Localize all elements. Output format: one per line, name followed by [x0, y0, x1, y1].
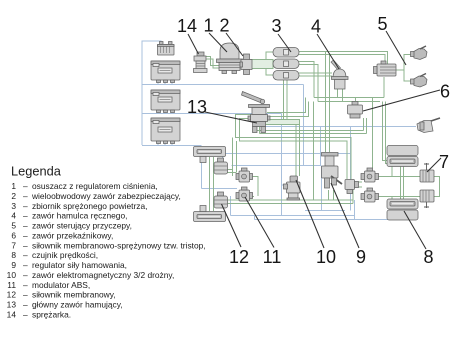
- svg-text:zawór hamulca ręcznego,: zawór hamulca ręcznego,: [32, 211, 127, 221]
- svg-text:zbiornik sprężonego powietrza,: zbiornik sprężonego powietrza,: [32, 201, 147, 211]
- svg-text:14: 14: [7, 309, 17, 319]
- svg-text:10: 10: [316, 247, 336, 267]
- svg-text:1: 1: [203, 16, 213, 36]
- svg-text:6: 6: [11, 230, 16, 240]
- svg-text:10: 10: [7, 270, 17, 280]
- svg-text:wieloobwodowy zawór zabezpiecz: wieloobwodowy zawór zabezpieczający,: [31, 191, 181, 201]
- svg-text:4: 4: [311, 17, 321, 37]
- svg-text:zawór przekaźnikowy,: zawór przekaźnikowy,: [32, 230, 113, 240]
- svg-text:siłownik membranowo-sprężynowy: siłownik membranowo-sprężynowy tzw. tris…: [32, 240, 206, 250]
- svg-text:–: –: [23, 280, 28, 290]
- svg-text:osuszacz z regulatorem ciśnien: osuszacz z regulatorem ciśnienia,: [32, 181, 158, 191]
- svg-text:11: 11: [263, 247, 282, 267]
- svg-text:5: 5: [377, 14, 387, 34]
- svg-text:Legenda: Legenda: [11, 164, 62, 179]
- svg-text:3: 3: [271, 16, 281, 36]
- svg-text:7: 7: [439, 152, 449, 172]
- svg-text:12: 12: [7, 290, 17, 300]
- svg-text:czujnik prędkości,: czujnik prędkości,: [32, 250, 98, 260]
- svg-text:–: –: [23, 290, 28, 300]
- svg-text:–: –: [23, 300, 28, 310]
- svg-text:–: –: [23, 250, 28, 260]
- svg-text:sprężarka.: sprężarka.: [32, 309, 71, 319]
- svg-text:11: 11: [7, 280, 16, 290]
- svg-text:8: 8: [423, 247, 433, 267]
- svg-text:–: –: [23, 221, 28, 231]
- svg-text:–: –: [23, 211, 28, 221]
- svg-text:8: 8: [11, 250, 16, 260]
- svg-text:5: 5: [11, 221, 16, 231]
- svg-text:zawór elektromagnetyczny 3/2 d: zawór elektromagnetyczny 3/2 drożny,: [32, 270, 174, 280]
- svg-text:9: 9: [356, 247, 366, 267]
- svg-text:7: 7: [11, 240, 16, 250]
- svg-text:–: –: [23, 230, 28, 240]
- svg-text:1: 1: [11, 181, 16, 191]
- svg-text:modulator ABS,: modulator ABS,: [32, 280, 90, 290]
- svg-text:2: 2: [219, 16, 229, 36]
- svg-text:zawór sterujący przyczepy,: zawór sterujący przyczepy,: [32, 221, 132, 231]
- svg-text:–: –: [23, 191, 28, 201]
- svg-text:–: –: [23, 260, 28, 270]
- svg-text:–: –: [23, 240, 28, 250]
- svg-text:6: 6: [440, 82, 450, 102]
- svg-text:–: –: [23, 270, 28, 280]
- svg-text:3: 3: [11, 201, 16, 211]
- svg-text:siłownik membranowy,: siłownik membranowy,: [32, 290, 116, 300]
- svg-text:14: 14: [177, 16, 197, 36]
- svg-text:–: –: [23, 181, 28, 191]
- svg-text:–: –: [23, 201, 28, 211]
- svg-text:–: –: [23, 309, 28, 319]
- svg-text:2: 2: [11, 191, 16, 201]
- svg-text:główny zawór hamujący,: główny zawór hamujący,: [32, 300, 123, 310]
- svg-text:12: 12: [229, 247, 249, 267]
- svg-text:13: 13: [187, 97, 207, 117]
- svg-text:9: 9: [11, 260, 16, 270]
- svg-text:regulator siły hamowania,: regulator siły hamowania,: [32, 260, 127, 270]
- svg-text:13: 13: [7, 300, 17, 310]
- svg-text:4: 4: [11, 211, 16, 221]
